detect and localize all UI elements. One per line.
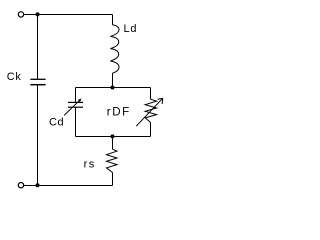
wire top: terminal to top-right corner [24, 14, 112, 16]
wire box bottom node to rs [112, 137, 114, 150]
wire box top [76, 87, 151, 89]
wire left branch lower [37, 86, 39, 186]
node junction top-left [36, 12, 40, 16]
svg-text:Ld: Ld [124, 23, 138, 35]
resistor rDF zigzag [145, 99, 156, 122]
terminal bottom-left [18, 183, 23, 188]
arrow of variable resistor rDF [136, 98, 163, 126]
svg-text:Ck: Ck [7, 71, 22, 83]
capacitor Ck [30, 78, 45, 80]
wire bottom [24, 185, 112, 187]
inductor Ld [110, 25, 119, 73]
wire rDF branch upper [150, 88, 152, 100]
wire left branch upper [37, 15, 39, 79]
arrow of variable capacitor Cd [64, 100, 80, 116]
wire Cd branch upper [75, 88, 77, 102]
capacitor Cd [68, 101, 83, 103]
wire rDF branch lower [150, 122, 152, 136]
node junction box bottom [111, 134, 115, 138]
wire inductor to node [112, 73, 114, 87]
node junction bottom-left [36, 183, 40, 187]
resistor rs zigzag [107, 149, 118, 172]
svg-text:rDF: rDF [107, 106, 131, 118]
terminal top-left [18, 12, 23, 17]
wire rs to bottom [112, 173, 114, 186]
wire box bottom [76, 136, 151, 138]
wire Cd branch lower [75, 108, 77, 137]
svg-text:Cd: Cd [49, 116, 64, 128]
wire top-right corner down [112, 15, 114, 25]
svg-text:rs: rs [84, 159, 96, 171]
node junction box top [111, 86, 115, 90]
